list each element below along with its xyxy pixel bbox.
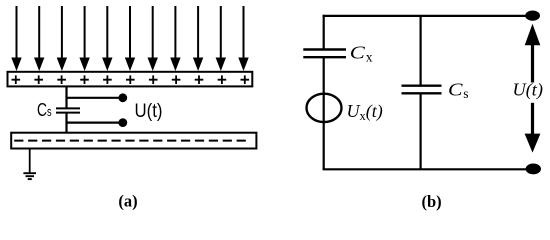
wire left branch through source to bottom — [323, 57, 325, 169]
wire middle branch lower — [420, 93, 422, 169]
wire capacitor to bottom plate — [65, 113, 67, 134]
capacitor Cs (b) — [402, 86, 442, 94]
svg-text:Ux(t): Ux(t) — [347, 101, 383, 123]
ground — [23, 173, 36, 179]
svg-text:Cx: Cx — [350, 42, 373, 64]
node top-right terminal — [525, 11, 540, 21]
svg-text:(a): (a) — [118, 192, 137, 211]
wire left branch top — [323, 15, 325, 50]
node bottom terminal — [118, 118, 127, 127]
wire top rail (b) — [323, 15, 528, 17]
wire middle branch upper — [420, 16, 422, 86]
arrow up of U(t) port — [525, 24, 541, 83]
wire to bottom terminal — [67, 121, 121, 123]
wire plate to ground — [29, 149, 31, 174]
svg-text:(b): (b) — [422, 192, 442, 211]
svg-text:Cs: Cs — [37, 100, 52, 120]
capacitor Cx — [303, 50, 346, 58]
source Ux(t) — [307, 94, 342, 122]
svg-text:Cs: Cs — [448, 80, 469, 102]
svg-text:U(t): U(t) — [513, 80, 544, 101]
dashed middle line of bottom plate — [14, 140, 250, 142]
arrow down of U(t) port — [525, 103, 541, 153]
wire to top terminal — [67, 97, 121, 99]
charge + symbols — [12, 75, 250, 84]
bottom electrode plate — [11, 133, 256, 149]
field arrows (incident field) — [11, 6, 248, 71]
wire bottom rail (b) — [323, 168, 528, 170]
svg-text:U(t): U(t) — [135, 101, 163, 122]
wire plate to capacitor — [65, 86, 67, 108]
capacitor Cs — [56, 108, 80, 112]
node top terminal — [118, 93, 127, 102]
node bottom-right terminal — [526, 164, 541, 175]
top electrode plate — [8, 72, 253, 87]
